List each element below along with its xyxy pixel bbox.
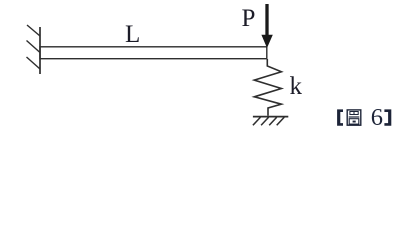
force arrow P shaft xyxy=(265,4,268,36)
force arrow P head xyxy=(261,35,272,48)
ground line xyxy=(253,116,288,118)
svg-text:P: P xyxy=(242,5,256,32)
caption character 圖 xyxy=(347,110,361,125)
ground hatch 4 xyxy=(277,117,285,125)
svg-text:L: L xyxy=(125,21,140,48)
svg-text:6: 6 xyxy=(371,104,383,131)
ground hatch 3 xyxy=(269,117,277,125)
ground hatch 1 xyxy=(253,117,261,125)
svg-text:k: k xyxy=(290,73,303,100)
beam xyxy=(40,47,267,59)
caption left lenticular bracket xyxy=(337,109,343,125)
fixed wall vertical line xyxy=(39,27,41,74)
wall hatch 2 xyxy=(27,41,41,53)
caption right lenticular bracket xyxy=(384,109,391,125)
wall hatch 1 xyxy=(27,25,40,36)
ground hatch 2 xyxy=(261,117,269,125)
spring k xyxy=(254,59,281,116)
wall hatch 3 xyxy=(27,57,41,69)
